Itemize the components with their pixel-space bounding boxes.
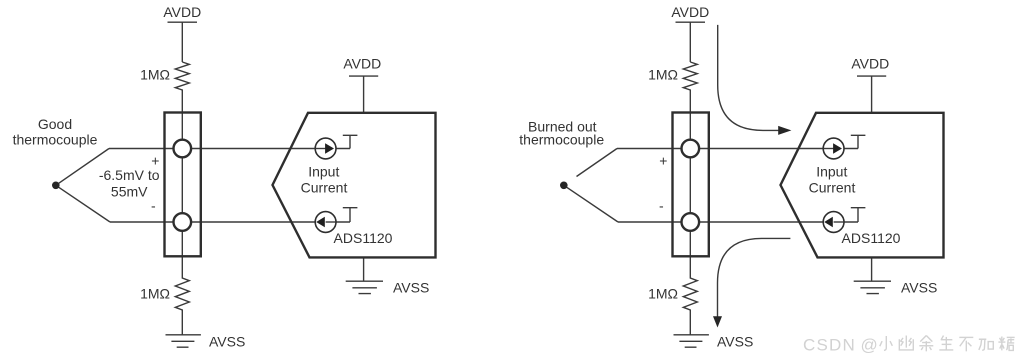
svg-text:55mV: 55mV <box>111 184 148 200</box>
svg-text:-6.5mV to: -6.5mV to <box>99 167 160 183</box>
svg-text:Good: Good <box>38 116 72 132</box>
svg-text:thermocouple: thermocouple <box>519 132 604 148</box>
svg-text:thermocouple: thermocouple <box>13 132 98 148</box>
svg-text:CSDN: CSDN <box>803 336 856 355</box>
svg-text:@: @ <box>861 336 878 355</box>
